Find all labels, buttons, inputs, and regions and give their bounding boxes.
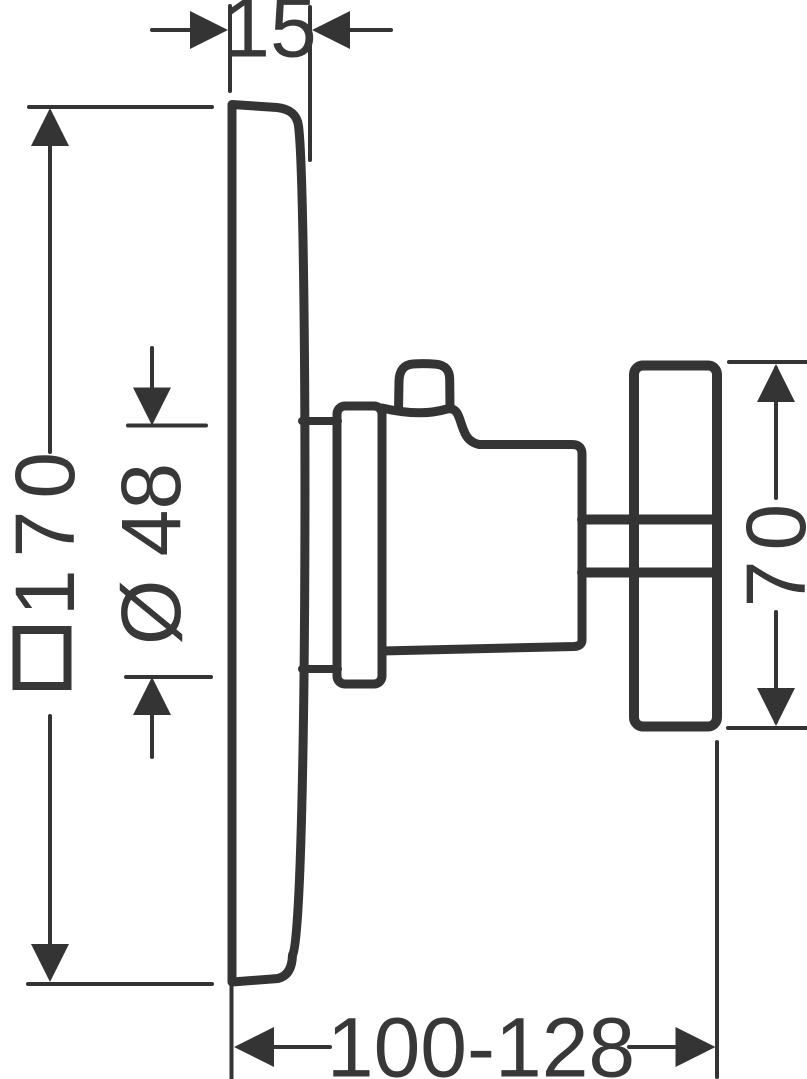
dim 70: vertical line lower — [774, 612, 778, 722]
cross handle bar — [634, 366, 717, 727]
arrowhead 70 down — [757, 688, 795, 726]
svg-text:15: 15 — [223, 0, 316, 75]
svg-text:170: 170 — [0, 440, 92, 616]
arrowhead 70 up — [757, 364, 795, 402]
dim 70: bottom tick — [728, 726, 807, 730]
svg-text:100-128: 100-128 — [327, 1001, 635, 1079]
dim 15: right arrow line — [350, 28, 391, 32]
dim 170: bottom tick — [28, 982, 212, 986]
dim 100-128: right line — [629, 1045, 676, 1049]
wall plate (escutcheon side profile) — [232, 105, 305, 983]
dim 170: vertical line upper — [48, 140, 52, 452]
extension line below plate — [230, 985, 234, 1079]
neck collar bottom line — [302, 665, 338, 673]
svg-text:Ø 48: Ø 48 — [104, 463, 198, 645]
dim 100-128: left line — [274, 1045, 330, 1049]
neck collar top line — [302, 417, 338, 425]
dim 70: vertical line upper — [774, 368, 778, 498]
mounting flange — [337, 406, 382, 684]
knob on top of body — [399, 364, 451, 411]
label square 170: square symbol — [17, 630, 68, 686]
dim 15: right extension line — [308, 7, 312, 160]
arrowhead 100-128 right — [676, 1027, 716, 1067]
arrowhead 170 down — [31, 944, 69, 982]
arrowhead 170 up — [31, 108, 69, 146]
arrowhead 15 left (points right) — [190, 11, 228, 49]
svg-text:70: 70 — [729, 494, 807, 607]
arrowhead 48 down — [133, 388, 171, 426]
arrowhead 15 right (points left) — [312, 11, 350, 49]
cartridge body — [382, 408, 582, 651]
dim 48: top arrow line — [150, 348, 154, 392]
arrowhead 100-128 left — [234, 1027, 274, 1067]
dim 15: left arrow line — [152, 28, 192, 32]
dim 48: bottom tick — [126, 675, 211, 679]
dim 48: bottom arrow line — [150, 713, 154, 757]
dim 170: top tick — [29, 105, 212, 109]
dim 48: top tick — [128, 424, 206, 428]
dim 70: top tick — [729, 360, 807, 364]
dim 15: left extension line — [228, 6, 232, 91]
arrowhead 48 up — [133, 677, 171, 715]
stem lower line — [582, 568, 716, 578]
dim 170: vertical line lower — [48, 716, 52, 948]
stem upper line — [582, 515, 716, 525]
extension line below handle — [715, 742, 719, 1077]
